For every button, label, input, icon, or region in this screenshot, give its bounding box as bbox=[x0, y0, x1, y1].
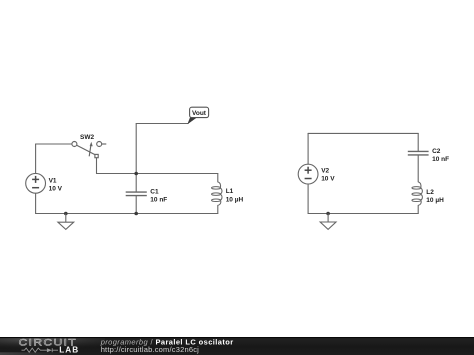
wire: right circuit top rail bbox=[308, 132, 418, 134]
capacitor C2 bbox=[408, 151, 429, 155]
wire: right circuit bottom rail bbox=[308, 213, 418, 215]
svg-text:SW2: SW2 bbox=[80, 134, 94, 141]
svg-text:L2: L2 bbox=[426, 189, 434, 196]
wire: C2 top lead bbox=[417, 133, 419, 151]
wire: L2 bottom lead bbox=[417, 205, 419, 213]
svg-text:C1: C1 bbox=[150, 188, 159, 195]
wire: Vout horizontal lead bbox=[136, 123, 188, 125]
wire: C2 to L2 bbox=[417, 155, 419, 182]
wire: L1 top lead bbox=[217, 174, 219, 182]
wire: top rail to SW2 left terminal bbox=[36, 143, 72, 145]
ground symbol (left circuit) bbox=[58, 214, 74, 230]
inductor L2 bbox=[412, 182, 423, 206]
CircuitLab logo: resistor zigzag + diode bbox=[22, 348, 59, 352]
ground symbol (right circuit) bbox=[320, 214, 336, 230]
wire: bottom rail bbox=[36, 213, 218, 215]
node Vout flag pointer bbox=[188, 118, 197, 124]
svg-text:10 nF: 10 nF bbox=[432, 156, 449, 163]
wire: middle rail bbox=[97, 173, 218, 175]
svg-text:LAB: LAB bbox=[59, 346, 79, 355]
svg-text:10 V: 10 V bbox=[321, 175, 335, 182]
capacitor C1 bbox=[126, 192, 147, 196]
svg-text:10 µH: 10 µH bbox=[226, 196, 244, 203]
switch SW2 actuator arrowhead bbox=[90, 142, 93, 147]
wire: V1 top to top-left corner bbox=[35, 144, 37, 173]
voltage source V2 bbox=[298, 164, 318, 184]
wire: V2 top lead bbox=[307, 133, 309, 164]
wire: V2 bottom lead bbox=[307, 184, 309, 214]
voltage source V1 bbox=[26, 173, 46, 193]
svg-text:Vout: Vout bbox=[192, 110, 207, 117]
svg-text:10 µH: 10 µH bbox=[426, 197, 444, 204]
svg-text:L1: L1 bbox=[226, 188, 234, 195]
junction: ground tap on bottom rail (left) bbox=[64, 212, 68, 216]
junction: ground tap on bottom rail (right) bbox=[326, 212, 330, 216]
inductor L1 bbox=[212, 182, 223, 206]
wire: node A up to Vout lead bbox=[135, 124, 137, 174]
svg-text:C2: C2 bbox=[432, 148, 441, 155]
wire: V1 bottom to bottom rail bbox=[35, 193, 37, 213]
svg-text:10 nF: 10 nF bbox=[150, 196, 167, 203]
node Vout flag box bbox=[190, 107, 209, 117]
svg-text:V2: V2 bbox=[321, 168, 329, 175]
switch SW2 bbox=[72, 142, 106, 158]
wire: node A down to C1 top plate bbox=[135, 174, 137, 193]
wire: SW2 pole down to middle rail bbox=[96, 158, 98, 174]
junction: node A (Vout / C1 / middle rail) bbox=[134, 172, 138, 176]
svg-text:V1: V1 bbox=[49, 177, 57, 184]
svg-text:10 V: 10 V bbox=[49, 185, 63, 192]
wire: L1 bottom lead bbox=[217, 205, 219, 213]
wire: C1 bottom plate to bottom rail bbox=[135, 196, 137, 214]
svg-text:http://circuitlab.com/c32n6cj: http://circuitlab.com/c32n6cj bbox=[101, 345, 199, 354]
junction: C1 bottom on bottom rail bbox=[134, 212, 138, 216]
